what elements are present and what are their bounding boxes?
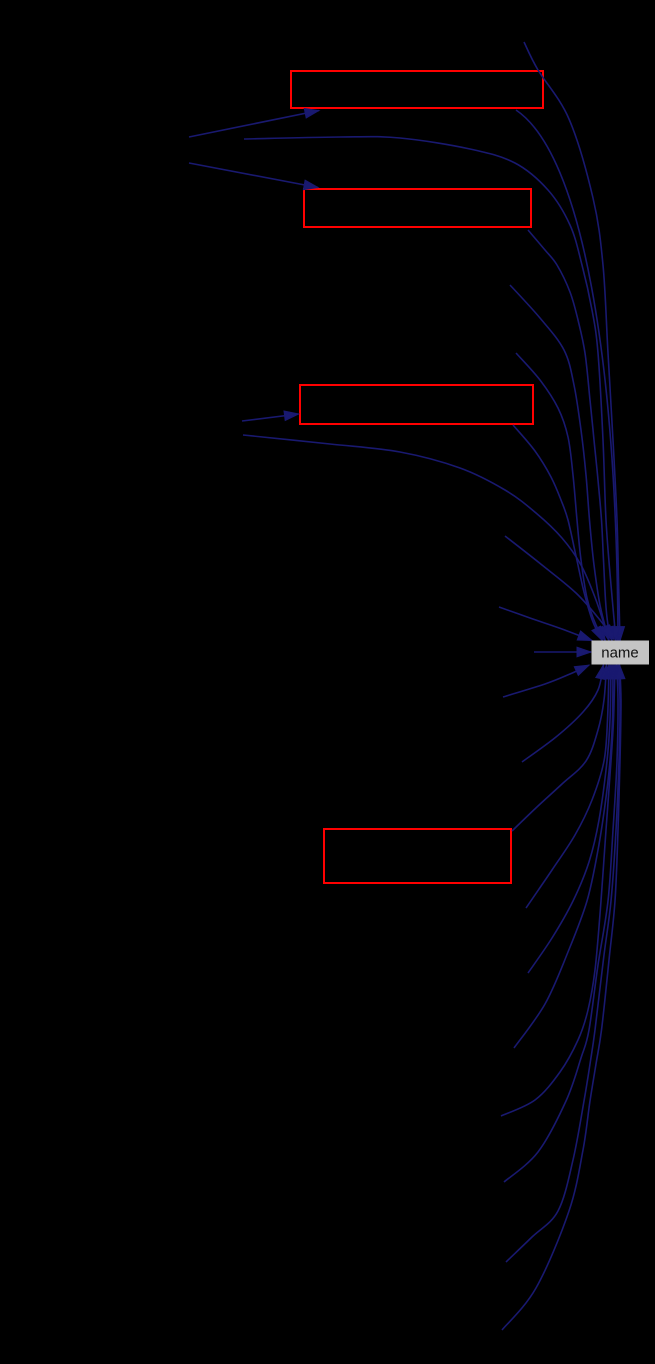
node "name" (current node) [592,641,650,665]
edge T4 to node "name" [528,230,613,641]
edge T6 to node "name" [516,353,606,641]
node5 (red box 4) [324,829,511,883]
edge L2 to node "name" [503,665,589,697]
edge B2 to node "name" [512,665,610,831]
edge B6 to node "name" [501,665,619,1116]
edge B5 to node "name" [514,665,618,1048]
edge B4 to node "name" [528,665,616,973]
edge A2 [189,163,318,190]
edge A1 [189,109,319,137]
edge T3 to node "name" [244,137,620,641]
edge T5 to node "name" [510,285,610,641]
edge T1 to node "name" [524,42,625,641]
edge A3 [242,411,299,421]
node3 (red box 2) [304,189,531,227]
edge B8 to node "name" [506,665,624,1262]
edge B7 to node "name" [504,665,622,1182]
edge L1 to node "name" [534,647,591,657]
edge B9 to node "name" [502,665,625,1330]
edge T8 to node "name" [243,435,609,640]
node4 (red box 3) [300,385,533,424]
edge T7 to node "name" [513,425,603,641]
edge T10 to node "name" [499,607,592,641]
edge T9 to node "name" [505,536,614,639]
edge T2 to node "name" [516,110,623,641]
node2 (red box 1) [291,71,543,108]
svg-text:name: name [601,645,639,662]
edge B1 to node "name" [522,665,605,762]
edge B3 to node "name" [526,665,613,908]
